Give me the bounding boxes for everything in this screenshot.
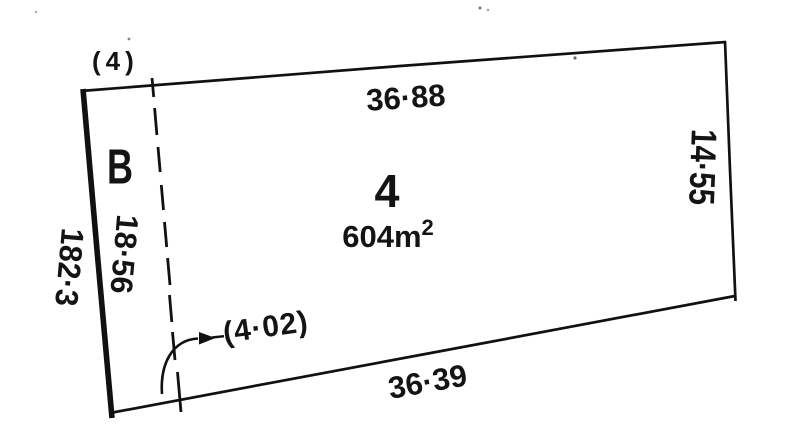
dashed internal boundary (ticks + dashes) [152, 78, 181, 412]
svg-text:4: 4 [375, 165, 400, 217]
scan speck [128, 38, 131, 41]
curved arrow to (4.02) [162, 339, 198, 395]
svg-text:14·55: 14·55 [681, 128, 725, 205]
svg-text:B: B [107, 141, 133, 195]
wire dash 4 [161, 185, 163, 210]
boundary: bottom [110, 296, 735, 413]
boundary: right [725, 41, 736, 301]
tick crossing top edge [152, 78, 154, 97]
wire dash 3 [158, 147, 160, 172]
svg-text:604m2: 604m2 [342, 215, 434, 254]
tick crossing bottom edge [178, 372, 182, 412]
svg-text:182·3: 182·3 [48, 227, 91, 308]
wire dash 6 [168, 258, 170, 285]
scan speck [487, 9, 489, 11]
wire dash 7 [170, 295, 172, 322]
arrowhead [199, 332, 216, 345]
wire dash 2 [155, 108, 157, 135]
svg-text:36·88: 36·88 [365, 77, 447, 117]
svg-text:18·56: 18·56 [103, 213, 145, 295]
scan speck [35, 11, 37, 13]
boundary: top [81, 42, 726, 91]
wire dash 8 [173, 332, 176, 360]
scan speck [479, 7, 482, 10]
scan speck [573, 56, 576, 59]
wire dash 5 [165, 222, 167, 247]
svg-text:(4): (4) [92, 46, 139, 76]
arrowhead tail [212, 336, 224, 337]
boundary: left road frontage (thick) [83, 89, 112, 418]
